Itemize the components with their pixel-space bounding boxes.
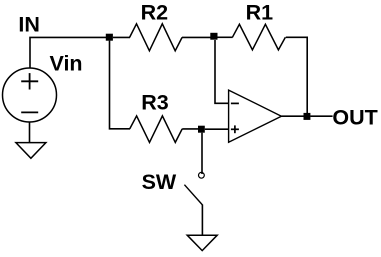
wire — [215, 40, 229, 103]
wire — [182, 128, 198, 130]
svg-text:R3: R3 — [141, 91, 169, 115]
wire — [110, 41, 131, 129]
svg-text:IN: IN — [18, 13, 40, 37]
svg-text:R1: R1 — [246, 0, 274, 24]
wire — [310, 115, 332, 117]
wire — [29, 122, 31, 143]
op-amp U1 — [229, 90, 282, 142]
node (junction R2 / R1 / inverting input) — [210, 33, 217, 40]
svg-text:R2: R2 — [141, 0, 169, 24]
node (junction IN / R2 / R3) — [106, 34, 113, 41]
ground — [16, 143, 46, 159]
wire — [201, 133, 203, 174]
switch SW contact — [199, 172, 205, 178]
wire — [286, 37, 307, 113]
wire — [201, 205, 203, 236]
svg-text:OUT: OUT — [332, 106, 377, 130]
resistor R2 — [130, 24, 183, 51]
wire — [182, 36, 211, 38]
node (junction R3 / non-inverting input / SW) — [198, 126, 205, 133]
node (output junction) — [304, 113, 311, 120]
resistor R3 — [130, 116, 183, 142]
wire — [281, 115, 304, 117]
wire — [205, 128, 229, 130]
wire — [113, 36, 130, 38]
wire — [30, 37, 107, 68]
svg-text:Vin: Vin — [50, 51, 83, 75]
resistor R1 — [232, 24, 285, 50]
svg-text:SW: SW — [142, 170, 177, 194]
voltage source Vin — [3, 68, 57, 122]
wire — [218, 36, 233, 38]
switch SW lever — [184, 185, 202, 205]
ground — [187, 235, 217, 250]
